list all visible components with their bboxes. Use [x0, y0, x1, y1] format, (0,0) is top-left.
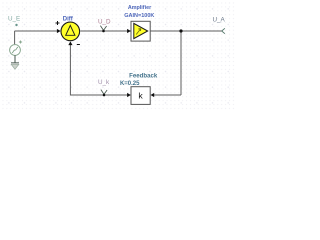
svg-text:U_E: U_E — [8, 15, 20, 22]
svg-text:K=0.25: K=0.25 — [120, 81, 140, 87]
svg-text:U_k: U_k — [98, 79, 110, 86]
svg-text:Diff: Diff — [63, 16, 74, 22]
svg-text:Feedback: Feedback — [129, 72, 158, 79]
svg-text:U_D: U_D — [98, 19, 111, 26]
svg-text:GAIN=100K: GAIN=100K — [124, 13, 154, 19]
svg-text:U_A: U_A — [213, 17, 226, 24]
svg-text:Amplifier: Amplifier — [128, 5, 152, 11]
svg-text:k: k — [138, 91, 143, 101]
